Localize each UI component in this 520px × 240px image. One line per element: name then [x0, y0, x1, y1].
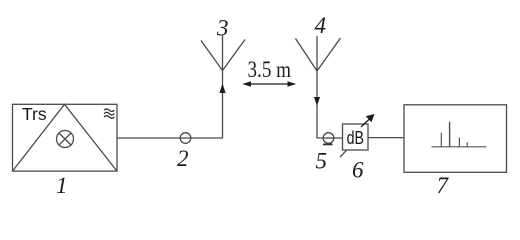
distance arrow 3.5 m [245, 83, 294, 85]
oscillator symbol circle-X [57, 131, 74, 148]
spectrum trace inside analyzer [432, 122, 487, 147]
transmitter box U1 [13, 104, 118, 171]
svg-text:3: 3 [216, 16, 229, 41]
connector 2 [180, 133, 191, 144]
variable arrow on attenuator [361, 119, 370, 128]
connector 5 base dash [323, 143, 333, 145]
wire box1 to antenna 3 [117, 71, 223, 139]
spectrum analyzer box 7 [404, 105, 507, 173]
svg-text:Trs: Trs [22, 104, 47, 124]
svg-text:2: 2 [177, 146, 189, 171]
approx symbol (three tildes) in transmitter [104, 109, 114, 118]
svg-text:7: 7 [437, 173, 450, 198]
triangle inside transmitter [13, 104, 118, 171]
antenna 4 [296, 36, 341, 71]
leader line label 6 [340, 150, 347, 157]
antenna 3 [201, 36, 245, 71]
wire attenuator to analyzer [368, 137, 404, 139]
svg-text:1: 1 [56, 173, 68, 198]
svg-text:4: 4 [315, 13, 327, 38]
down arrowhead on antenna 4 lead [314, 97, 320, 106]
wire antenna 4 down to connector 5 [317, 71, 343, 138]
svg-text:5: 5 [316, 149, 328, 174]
svg-text:6: 6 [352, 157, 364, 182]
svg-text:dB: dB [347, 128, 364, 148]
svg-text:3.5 m: 3.5 m [248, 57, 292, 82]
attenuator box 6 [343, 124, 369, 150]
up arrowhead on antenna 3 feed [219, 84, 225, 94]
connector 5 [323, 133, 334, 144]
